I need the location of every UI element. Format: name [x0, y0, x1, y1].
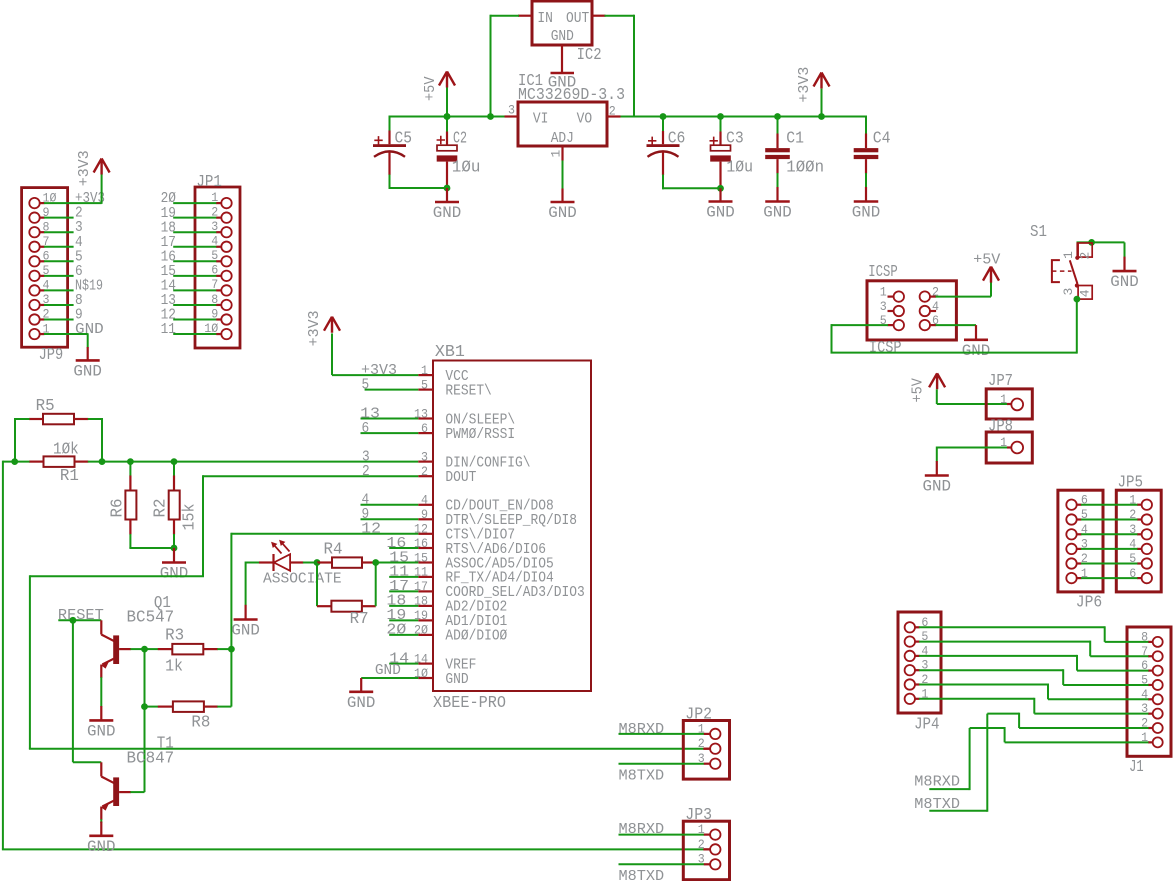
svg-text:R4: R4: [324, 540, 343, 559]
R7 parallel loop: [316, 563, 318, 607]
XB1 pin 13 ON/SLEEP\: [418, 417, 433, 419]
svg-text:GND: GND: [75, 321, 104, 338]
transistor T1 BC847: [100, 762, 102, 776]
svg-text:ASSOCIATE: ASSOCIATE: [263, 570, 342, 587]
IC2 regulator box (IN/OUT/GND): [532, 1, 592, 45]
resistor R5: [43, 414, 74, 425]
ICSP pin 1: [894, 291, 904, 301]
JP1 pin 10: [221, 329, 231, 339]
IC2 GND pin + ground: [561, 45, 563, 73]
XB1 wire net 4: [361, 504, 419, 506]
JP1 pin 6: [221, 271, 231, 281]
ICSP pin6 wire to ground: [936, 324, 976, 326]
ICSP pin5 wire out left: [832, 324, 889, 326]
S1 right wire down to ground: [1124, 242, 1126, 257]
XB1 pin 5 RESET\: [418, 389, 433, 391]
JP3 pin 2: [710, 844, 720, 854]
JP2 pin 1: [710, 729, 720, 739]
svg-text:5: 5: [1129, 551, 1136, 566]
S1 actuator bracket: [1052, 260, 1060, 282]
svg-text:RESET\: RESET\: [445, 382, 491, 399]
wire IN to rail: [491, 15, 520, 17]
ICSP left corner down: [831, 324, 833, 353]
XB1 pin 2 DOUT: [418, 475, 433, 477]
svg-text:6: 6: [421, 421, 428, 436]
svg-text:5: 5: [362, 376, 370, 393]
LED emission arrows: [273, 544, 281, 553]
long wire ICSP to S1: [831, 352, 1077, 354]
CTS wire from XBee down to R3/R8: [230, 533, 232, 707]
JP1 pin 7: [221, 285, 231, 295]
capacitor C4: [865, 133, 867, 136]
JP8 wire to ground: [937, 447, 1008, 449]
svg-text:GND: GND: [347, 694, 376, 712]
J1 pin 4: [1153, 694, 1163, 704]
XB1 pin 12 CTS\/DIO7: [418, 533, 433, 535]
Q1 emitter down to ground: [100, 677, 102, 706]
svg-text:4: 4: [1129, 537, 1136, 552]
svg-text:6: 6: [362, 420, 370, 437]
LED ASSOCIATE: [246, 562, 260, 564]
C1 ground: [776, 200, 778, 202]
IC1 pin 3: [505, 115, 519, 117]
svg-text:R7: R7: [350, 610, 369, 629]
main +5V rail left segment: [389, 116, 391, 132]
svg-text:DOUT: DOUT: [445, 469, 476, 486]
XBee module XB1 box: [433, 361, 591, 692]
resistor R8: [145, 706, 159, 708]
XB1 pin 9 DTR\/SLEEP_RQ/DI8: [418, 518, 433, 520]
JP3 pin 3: [710, 859, 720, 869]
Q1 base wire: [119, 648, 131, 650]
svg-text:GND: GND: [73, 362, 102, 380]
JP6 pin 1 to JP5 pin 6: [1066, 573, 1076, 583]
wire C6 bottom to C3 bottom: [662, 187, 721, 189]
+3V3 power arrow at rail: [818, 113, 825, 120]
svg-text:12: 12: [361, 521, 381, 538]
IC1 pin 2: [607, 115, 621, 117]
XB1 wire net 20: [389, 634, 418, 636]
svg-text:2: 2: [1129, 507, 1136, 522]
capacitor C6: [660, 113, 667, 120]
XB1 GND pin wire + ground: [361, 677, 418, 679]
ICSP pin 2: [920, 291, 930, 301]
XB1 wire net 17: [389, 590, 418, 592]
LED cathode down to ground: [245, 562, 247, 606]
svg-text:5: 5: [421, 377, 428, 392]
svg-text:J1: J1: [1129, 758, 1144, 777]
wire R5 right down to R1 row: [101, 418, 103, 462]
JP1 pin 2: [221, 212, 231, 222]
svg-text:3: 3: [1129, 522, 1136, 537]
svg-text:C5: C5: [395, 130, 413, 149]
svg-text:GND: GND: [87, 722, 116, 740]
C4 ground: [865, 200, 867, 202]
svg-text:VI: VI: [533, 111, 549, 128]
wire C5 bottom to C2 bottom: [389, 187, 448, 189]
svg-text:RESET: RESET: [58, 607, 104, 624]
S1 top wire: [1077, 241, 1125, 243]
svg-text:BC547: BC547: [127, 609, 175, 628]
main +3V3 rail right segment: [621, 116, 867, 118]
svg-text:C6: C6: [668, 130, 686, 149]
svg-text:1: 1: [1081, 566, 1088, 581]
XB1 pin 15 ASSOC/AD5/DIO5: [418, 561, 433, 563]
capacitor C1 100n: [774, 113, 781, 120]
svg-text:1k: 1k: [165, 657, 183, 676]
svg-text:2: 2: [698, 837, 705, 852]
resistor R6: [129, 462, 131, 476]
XB1 pin 14 VREF: [418, 662, 433, 664]
JP9 pin 9: [29, 212, 39, 222]
XB1 RESET wire net 5: [365, 389, 419, 391]
connector JP8: [986, 432, 1032, 463]
JP9 pin 2: [29, 314, 39, 324]
svg-text:XB1: XB1: [435, 343, 465, 362]
svg-text:2: 2: [698, 736, 705, 751]
XB1 wire net 18: [389, 605, 418, 607]
svg-text:R3: R3: [165, 626, 184, 645]
svg-text:4: 4: [932, 299, 939, 314]
J1 pin 3: [1153, 709, 1163, 719]
svg-text:1: 1: [880, 285, 887, 300]
svg-text:GND: GND: [160, 565, 189, 583]
JP9 pin 4: [29, 285, 39, 295]
RESET wire: [58, 619, 101, 621]
DIN net wire across left (row y=461.6): [3, 461, 30, 463]
svg-text:GND: GND: [87, 838, 116, 856]
svg-text:ICSP: ICSP: [869, 339, 902, 358]
svg-text:GND: GND: [1110, 273, 1139, 291]
resistor R4: [317, 561, 332, 563]
XB1 ASSOC wire from R4: [376, 562, 419, 564]
svg-text:+3V3: +3V3: [306, 310, 323, 346]
connector JP4: [898, 612, 941, 713]
svg-text:2: 2: [1078, 252, 1093, 260]
J1 pin 8: [1153, 637, 1163, 647]
XB1 wire net 13: [361, 418, 419, 420]
svg-text:M8TXD: M8TXD: [619, 768, 665, 785]
svg-text:+3V3: +3V3: [76, 150, 93, 186]
JP7 wire: [937, 403, 1008, 405]
JP3 pin2 red stub: [704, 848, 710, 850]
svg-text:3: 3: [1081, 537, 1088, 552]
junction C3 bottom + ground: [717, 185, 724, 192]
left edge vertical wire down to bottom rail: [2, 461, 4, 850]
JP1 pin 9: [221, 314, 231, 324]
JP9 pin 8: [29, 227, 39, 237]
XB1 VREF wire net 14: [389, 663, 418, 665]
svg-text:JP9: JP9: [39, 346, 64, 365]
svg-text:1: 1: [1129, 492, 1136, 507]
svg-text:IC2: IC2: [577, 46, 602, 65]
XB1 pin 19 AD1/DIO1: [418, 619, 433, 621]
JP9 pin 3: [29, 300, 39, 310]
bottom rail wire to JP3 pin 2: [2, 848, 704, 850]
JP4 pin 4 wire to J1: [905, 651, 915, 661]
svg-text:4: 4: [421, 493, 428, 508]
svg-text:GND: GND: [551, 28, 574, 45]
JP1 pin 5: [221, 256, 231, 266]
svg-text:R8: R8: [191, 713, 210, 732]
svg-text:2: 2: [1081, 551, 1088, 566]
svg-text:ADØ/DIOØ: ADØ/DIOØ: [445, 628, 507, 645]
+5V arrow for JP7: [929, 373, 945, 389]
JP2 pin2 red stub: [704, 748, 710, 750]
svg-text:R6: R6: [109, 499, 128, 518]
svg-text:6: 6: [1129, 566, 1136, 581]
JP6 pin 4 to JP5 pin 3: [1066, 529, 1076, 539]
S1 lever: [1070, 260, 1078, 284]
svg-text:GND: GND: [852, 204, 881, 222]
XB1 VCC wire from +3V3 arrow: [331, 333, 333, 375]
J1 pin 6: [1153, 666, 1163, 676]
svg-text:C2: C2: [453, 130, 467, 149]
IC1 regulator box: [518, 102, 607, 146]
XB1 wire net 16: [389, 547, 418, 549]
JP3 pin3 wire M8TXD: [619, 863, 705, 865]
svg-text:3: 3: [421, 449, 428, 464]
svg-text:PWMØ/RSSI: PWMØ/RSSI: [445, 426, 515, 443]
svg-text:JP5: JP5: [1118, 473, 1144, 492]
svg-text:JP4: JP4: [914, 716, 939, 735]
junction R8 left node: [141, 703, 148, 710]
JP6 pin 2 to JP5 pin 5: [1066, 558, 1076, 568]
connector JP5: [1116, 490, 1161, 592]
T1 base wire: [119, 791, 131, 793]
svg-text:JP7: JP7: [988, 372, 1013, 391]
junction RESET: [70, 617, 77, 624]
svg-text:ADJ: ADJ: [551, 130, 574, 147]
JP4 pin 1 wire to J1: [905, 694, 915, 704]
svg-text:1: 1: [1000, 392, 1007, 407]
svg-text:C1: C1: [786, 130, 804, 149]
wire R5 left down to R1 row: [14, 418, 16, 462]
JP2 pin 3: [710, 759, 720, 769]
svg-text:1: 1: [1061, 251, 1076, 259]
svg-text:4: 4: [1078, 289, 1093, 297]
svg-text:GND: GND: [548, 204, 577, 222]
R6 bottom wire to R2 bottom junction: [129, 547, 174, 549]
svg-text:2Ø: 2Ø: [386, 622, 406, 639]
svg-text:5: 5: [1081, 507, 1088, 522]
capacitor C2 10u: [444, 113, 451, 120]
svg-text:S1: S1: [1030, 223, 1047, 242]
XB1 pin 3 DIN/CONFIG\: [418, 461, 433, 463]
JP4 pin 2 wire to J1: [905, 679, 915, 689]
svg-text:3: 3: [1061, 288, 1076, 296]
svg-text:GND: GND: [962, 342, 991, 360]
JP1 pin 8: [221, 300, 231, 310]
svg-text:ICSP: ICSP: [868, 263, 897, 282]
svg-text:JP6: JP6: [1076, 594, 1102, 613]
wire up to S1 pins 3/4: [1076, 299, 1078, 354]
JP3 pin 1: [710, 829, 720, 839]
JP9 pin 1: [29, 329, 39, 339]
XB1 CTS wire net 12: [231, 533, 418, 535]
XB1 wire net 9: [361, 518, 419, 520]
J1 pin 7: [1153, 651, 1163, 661]
J1 pin 1: [1153, 737, 1163, 747]
svg-text:+5V: +5V: [973, 252, 1000, 269]
svg-text:R1: R1: [60, 467, 79, 486]
junction R3 right / CTS vertical: [228, 646, 235, 653]
connector JP6: [1058, 490, 1103, 592]
svg-text:GND: GND: [706, 204, 735, 222]
JP6 pin 6 to JP5 pin 1: [1066, 500, 1076, 510]
svg-text:IN: IN: [537, 10, 553, 27]
JP1 pin 3: [221, 227, 231, 237]
svg-text:+5V: +5V: [910, 378, 927, 402]
JP1 pin 1: [221, 198, 231, 208]
svg-text:1Øk: 1Øk: [53, 441, 79, 460]
svg-text:R2: R2: [152, 499, 171, 518]
XB1 pin 4 CD/DOUT_EN/DO8: [418, 504, 433, 506]
JP9 pin 6: [29, 256, 39, 266]
transistor Q1 BC547: [100, 620, 102, 634]
junction R6/R2 bottom + ground: [171, 545, 178, 552]
svg-text:C4: C4: [873, 130, 891, 149]
svg-text:2: 2: [362, 463, 370, 480]
ICSP pin 6: [920, 320, 930, 330]
JP9 pin 7: [29, 242, 39, 252]
svg-text:GND: GND: [433, 204, 462, 222]
XB1 pin 6 PWM0/RSSI: [418, 432, 433, 434]
JP9 +3V3 arrow: [101, 174, 103, 204]
svg-text:M8TXD: M8TXD: [619, 868, 665, 881]
svg-text:+5V: +5V: [422, 77, 439, 102]
wire to JP2 pin 2: [29, 748, 704, 750]
resistor R3 1k: [145, 648, 159, 650]
svg-text:1Øu: 1Øu: [726, 158, 753, 177]
JP9 pin 10: [29, 198, 39, 208]
S1 pins 3-4 contact block: [1078, 286, 1092, 300]
svg-text:VO: VO: [577, 111, 593, 128]
XB1 pin 20 AD0/DIO0: [418, 634, 433, 636]
IC2 pin IN stub: [518, 15, 532, 17]
ICSP pin 4: [920, 306, 930, 316]
XB1 pin 18 AD2/DIO2: [418, 605, 433, 607]
XB1 pin 10 GND: [418, 677, 433, 679]
JP9 pin 5: [29, 271, 39, 281]
svg-text:1ØØn: 1ØØn: [786, 159, 824, 178]
JP9 pin1 ground: [87, 333, 89, 347]
J1 pin 2: [1153, 723, 1163, 733]
S1 pins 1-2 contact block: [1078, 243, 1092, 257]
resistor R2 15k: [173, 462, 175, 476]
junction C2 bottom + ground: [444, 185, 451, 192]
IC1 pin 1 ADJ down to ground: [561, 146, 563, 161]
XB1 pin 11 RF_TX/AD4/DIO4: [418, 576, 433, 578]
XB1 pin 16 RTS\/AD6/DIO6: [418, 547, 433, 549]
ICSP pin2 wire to +5V: [936, 296, 991, 298]
connector JP1: [195, 187, 240, 348]
vertical from base junction down to R8 and T1 base: [144, 649, 146, 792]
junction rail/IN: [487, 113, 494, 120]
svg-text:2: 2: [421, 464, 428, 479]
J1 pin 5: [1153, 680, 1163, 690]
svg-text:3: 3: [880, 299, 887, 314]
svg-text:GND: GND: [763, 204, 792, 222]
connector JP3: [683, 821, 729, 880]
svg-text:6: 6: [1081, 492, 1088, 507]
svg-text:1: 1: [549, 150, 564, 158]
wire OUT to rail: [605, 15, 635, 17]
svg-text:JP8: JP8: [988, 418, 1013, 437]
IC2 pin OUT stub: [592, 15, 606, 17]
JP1 pin 4: [221, 242, 231, 252]
capacitor C3 10u: [717, 113, 724, 120]
JP4 pin 5 wire to J1: [905, 636, 915, 646]
svg-text:15k: 15k: [181, 504, 200, 531]
JP2 pin 2: [710, 744, 720, 754]
XB1 wire net 6: [361, 432, 419, 434]
junction R4 right node: [372, 559, 379, 566]
XB1 wire net 19: [389, 619, 418, 621]
DOUT wire from XBee to left loop: [202, 475, 204, 576]
JP2 pin3 wire M8TXD: [619, 763, 705, 765]
junction Q1 base node: [141, 646, 148, 653]
svg-text:OUT: OUT: [566, 10, 589, 27]
rail corner down to C4: [865, 116, 867, 134]
XB1 pin 1 VCC: [418, 374, 433, 376]
svg-text:GND: GND: [923, 478, 952, 496]
svg-text:C3: C3: [726, 130, 744, 149]
JP6 pin 5 to JP5 pin 2: [1066, 514, 1076, 524]
svg-text:GND: GND: [445, 671, 468, 688]
svg-text:3: 3: [508, 103, 515, 118]
connector JP7: [986, 389, 1032, 419]
JP6 pin 3 to JP5 pin 4: [1066, 544, 1076, 554]
+5V power arrow at rail: [444, 113, 451, 120]
XB1 DOUT wire net 2: [203, 475, 418, 477]
svg-text:XBEE-PRO: XBEE-PRO: [433, 694, 506, 713]
T1 emitter down to ground: [100, 819, 102, 823]
connector J1: [1127, 627, 1171, 756]
svg-text:1: 1: [421, 363, 428, 378]
svg-text:R5: R5: [36, 397, 55, 416]
svg-text:11: 11: [161, 321, 176, 338]
junction LED/R4/R7 node: [314, 559, 321, 566]
JP4 pin 6 wire to J1: [905, 622, 915, 632]
svg-text:+3V3: +3V3: [796, 67, 813, 103]
connector JP2: [683, 721, 729, 780]
ICSP pin 5: [894, 320, 904, 330]
connector JP9: [22, 188, 68, 348]
svg-text:9: 9: [421, 507, 428, 522]
connector ICSP: [867, 281, 956, 340]
svg-text:2: 2: [609, 103, 616, 118]
svg-text:4: 4: [1081, 522, 1088, 537]
XB1 wire net 11: [389, 576, 418, 578]
capacitor C5: [389, 131, 391, 133]
wire RESET down to T1 collector: [72, 620, 74, 762]
svg-text:GND: GND: [375, 662, 401, 679]
XB1 pin 17 COORD_SEL/AD3/DIO3: [418, 590, 433, 592]
ICSP pin 3: [894, 306, 904, 316]
svg-text:1Øu: 1Øu: [452, 158, 481, 177]
JP4 pin 3 wire to J1: [905, 665, 915, 675]
node junctions on DIN row: [11, 458, 18, 465]
svg-text:M8RXD: M8RXD: [619, 721, 665, 738]
resistor R1 10k: [44, 456, 75, 467]
svg-text:BC847: BC847: [127, 750, 175, 769]
svg-text:GND: GND: [231, 622, 260, 640]
